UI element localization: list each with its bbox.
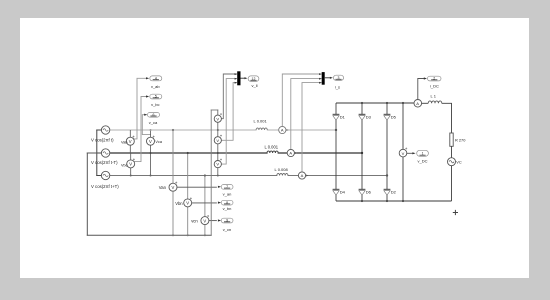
diode D3 bbox=[359, 114, 366, 120]
voltmeter Vca bbox=[147, 130, 155, 176]
node: Vdc branch bottom bbox=[402, 200, 404, 202]
pin polarity marks on voltmeters bbox=[133, 113, 408, 217]
node Vca crossing rail b bbox=[150, 152, 152, 154]
wire: V2 output riser to mux1 input 3 bbox=[221, 83, 236, 141]
wire: Vca output riser to outport 6 bbox=[142, 115, 150, 135]
wire: neutral return left drop bbox=[86, 153, 88, 235]
node: neutral joint Vbn bbox=[187, 234, 189, 236]
voltmeter Van bbox=[169, 183, 177, 191]
label D4 bbox=[340, 190, 346, 195]
wire: bridge leg 1 vertical bbox=[335, 103, 337, 201]
svg-text:D5: D5 bbox=[391, 115, 397, 120]
label VC bbox=[456, 159, 462, 164]
label Ldc value bbox=[431, 93, 437, 98]
svg-text:V: V bbox=[203, 218, 206, 223]
wire mux2 output bbox=[325, 77, 333, 79]
wire: Vcn output to outport 9 bbox=[209, 220, 217, 222]
label Vcn bbox=[191, 219, 198, 224]
inductor Ldc bbox=[422, 101, 442, 103]
svg-text:1: 1 bbox=[422, 151, 424, 155]
svg-text:v_bc: v_bc bbox=[151, 102, 159, 107]
wire: resistor to VC source bbox=[451, 146, 453, 157]
AC voltage source Va bbox=[101, 126, 109, 134]
node: top rail leg2 bbox=[361, 102, 363, 104]
node: Vdc branch top bbox=[402, 102, 404, 104]
node: voltmeter column crossing rail a bbox=[217, 129, 219, 131]
wire: ammeter A2 riser to mux2 input 2 bbox=[291, 79, 321, 150]
pin mux2 input arrows bbox=[319, 73, 321, 84]
wire: ammeter A3 riser to mux2 input 3 bbox=[302, 83, 321, 172]
label D2 bbox=[391, 190, 397, 195]
svg-text:Vab: Vab bbox=[121, 141, 127, 145]
outport 3 i_s bbox=[333, 75, 343, 80]
label Vbn bbox=[175, 201, 183, 206]
node: top rail leg3 bbox=[386, 102, 388, 104]
node: Vcn tap on phase c bbox=[204, 174, 206, 176]
svg-text:V cos(2πf t): V cos(2πf t) bbox=[91, 138, 114, 143]
svg-text:i_s: i_s bbox=[335, 85, 340, 90]
mux U1 voltage mux bbox=[237, 71, 240, 85]
svg-text:v_ll: v_ll bbox=[251, 83, 257, 88]
label plus terminal bbox=[453, 210, 458, 215]
resistor Rload bbox=[450, 133, 453, 146]
svg-text:L 0.001: L 0.001 bbox=[265, 144, 279, 149]
wire: V3 output riser to mux1 input 2 bbox=[221, 79, 236, 165]
wire: left source bus vertical bbox=[96, 130, 98, 176]
label Van bbox=[159, 185, 167, 190]
wire mux1 output bbox=[241, 77, 248, 79]
wire: Van measurement branch bbox=[172, 130, 174, 235]
svg-text:V: V bbox=[172, 185, 175, 190]
wire: Vdc output to outport 1 bbox=[407, 152, 416, 154]
outport 12 v_ll bbox=[248, 76, 259, 82]
label Lb value bbox=[265, 144, 279, 149]
svg-text:v_an: v_an bbox=[223, 192, 232, 197]
wire: phase a rail after ammeter A1 bbox=[286, 129, 336, 131]
ammeter A3 bbox=[298, 172, 308, 179]
svg-text:VC: VC bbox=[456, 159, 462, 164]
outport 6 v_ca bbox=[144, 112, 159, 117]
svg-text:V cos(2πf t+T): V cos(2πf t+T) bbox=[91, 184, 119, 189]
svg-text:v_ca: v_ca bbox=[149, 120, 158, 125]
svg-text:A: A bbox=[289, 151, 292, 156]
svg-text:L 1: L 1 bbox=[431, 93, 437, 98]
label La value bbox=[254, 118, 268, 123]
outport 5 v_bc bbox=[146, 94, 162, 99]
wire: phase b rail after ammeter A2 bbox=[294, 152, 362, 154]
wire: Vbn measurement branch bbox=[187, 153, 189, 235]
label port v_an bbox=[223, 192, 232, 197]
wire: phase c rail after ammeter A3 bbox=[306, 175, 387, 177]
svg-text:V: V bbox=[402, 151, 405, 156]
wire: voltmeter column vertical bbox=[217, 110, 219, 176]
svg-text:V: V bbox=[129, 139, 132, 144]
wire: bridge leg 3 vertical bbox=[386, 103, 388, 201]
svg-text:V: V bbox=[149, 139, 152, 144]
node: neutral joint Van bbox=[172, 234, 174, 236]
label Rload value bbox=[455, 137, 466, 142]
wire: phase a rail bbox=[110, 129, 279, 131]
wire: Adc riser to outport 2 bbox=[418, 77, 427, 99]
label D5 bbox=[391, 115, 397, 120]
svg-text:A: A bbox=[301, 173, 304, 178]
svg-text:v_DC: v_DC bbox=[417, 158, 427, 163]
wire: rail b to left drop bbox=[87, 152, 97, 154]
svg-text:A: A bbox=[281, 128, 284, 133]
label source Vb value bbox=[91, 160, 118, 165]
svg-text:V: V bbox=[216, 138, 219, 143]
label D6 bbox=[366, 190, 372, 195]
diode D2 bbox=[384, 189, 391, 195]
wire: source stub phase b bbox=[97, 152, 102, 154]
outport 2 i_DC bbox=[428, 76, 442, 81]
wire: bridge bottom rail bbox=[336, 200, 452, 202]
wire: Vab output riser to outport 4 bbox=[134, 78, 146, 139]
inductor Lb bbox=[267, 151, 278, 153]
svg-text:D4: D4 bbox=[340, 190, 346, 195]
outport 7 v_an bbox=[218, 185, 233, 190]
node: Van tap on phase a bbox=[172, 129, 174, 131]
wire: bridge leg 2 vertical bbox=[361, 103, 363, 201]
label port v_ab bbox=[151, 84, 160, 89]
svg-text:Vca: Vca bbox=[155, 140, 162, 144]
voltmeter Vdc branch wire bbox=[402, 103, 404, 201]
wire: bridge top rail bbox=[336, 102, 414, 104]
label D3 bbox=[366, 115, 372, 120]
label source Va value bbox=[91, 138, 114, 143]
diode D6 bbox=[359, 189, 366, 195]
wire: V1 output riser to mux1 input 1 bbox=[221, 74, 236, 119]
node: bottom rail leg2 bbox=[361, 200, 363, 202]
voltmeter V1 line-neutral bbox=[214, 115, 221, 122]
voltmeter Vdc bbox=[399, 149, 407, 157]
svg-text:Van: Van bbox=[159, 185, 167, 190]
svg-text:D2: D2 bbox=[391, 190, 397, 195]
node Vca tap phase a bbox=[150, 129, 152, 131]
svg-text:D1: D1 bbox=[340, 115, 346, 120]
outport 9 v_cn bbox=[218, 218, 233, 223]
node Vbc tap phase c bbox=[130, 175, 132, 177]
svg-text:A: A bbox=[416, 101, 419, 106]
svg-text:v_ab: v_ab bbox=[151, 84, 160, 89]
outport 8 v_bn bbox=[218, 200, 233, 205]
wire: Vbn output to outport 8 bbox=[192, 202, 217, 204]
svg-text:L 0.001: L 0.001 bbox=[254, 118, 268, 123]
label port v_bn bbox=[223, 206, 232, 211]
mux U2 current mux bbox=[322, 72, 325, 85]
label source Vc value bbox=[91, 184, 119, 189]
label port v_ll bbox=[251, 83, 257, 88]
svg-text:vcn: vcn bbox=[191, 219, 198, 224]
AC voltage source Vc bbox=[101, 171, 109, 179]
label port i_DC bbox=[430, 84, 439, 89]
source VC bbox=[448, 158, 456, 166]
diode D4 bbox=[333, 189, 340, 195]
svg-text:L 0.008: L 0.008 bbox=[275, 167, 289, 172]
wire: top jog to voltmeter column bbox=[211, 109, 218, 111]
outport 4 v_ab bbox=[146, 76, 162, 81]
label port i_s bbox=[335, 85, 340, 90]
label port v_bc bbox=[151, 102, 159, 107]
svg-text:Vbc: Vbc bbox=[121, 163, 128, 167]
inductor La bbox=[256, 128, 267, 130]
node: phase a to leg1 bbox=[335, 129, 337, 131]
wire: phase b rail bbox=[110, 152, 287, 154]
label Vab bbox=[121, 141, 127, 145]
node Vca tap phase c bbox=[150, 175, 152, 177]
pin mux1 input arrows bbox=[235, 73, 237, 84]
svg-text:V: V bbox=[216, 162, 219, 167]
label port v_cn bbox=[223, 227, 231, 232]
outport 1 v_DC bbox=[417, 150, 429, 156]
svg-text:R 270: R 270 bbox=[455, 137, 466, 142]
svg-text:V: V bbox=[129, 162, 132, 167]
wire: Vcn measurement branch bbox=[204, 176, 206, 236]
node: bottom rail leg3 bbox=[386, 200, 388, 202]
node: phase c to leg3 bbox=[386, 174, 388, 176]
inductor Lc bbox=[277, 174, 288, 176]
svg-text:v_bn: v_bn bbox=[223, 206, 232, 211]
ammeter A2 bbox=[287, 149, 297, 156]
voltmeter Vab bbox=[126, 130, 134, 153]
wire: source stub phase c bbox=[97, 175, 102, 177]
svg-text:i_DC: i_DC bbox=[430, 84, 439, 89]
svg-text:v_cn: v_cn bbox=[223, 227, 231, 232]
node: voltmeter column end rail c bbox=[217, 175, 219, 177]
voltmeter Vbn bbox=[184, 199, 192, 207]
svg-text:D3: D3 bbox=[366, 115, 372, 120]
node: neutral joint Vcn bbox=[204, 234, 206, 236]
node: Vbn tap on phase b bbox=[187, 152, 189, 154]
wire: dc top to load corner bbox=[442, 103, 452, 133]
wire: Van output to outport 7 bbox=[177, 186, 216, 188]
label Vca bbox=[155, 140, 162, 144]
voltmeter V3 line-neutral bbox=[214, 161, 221, 168]
voltmeter Vcn bbox=[201, 217, 209, 225]
wire: neutral bus bottom bbox=[87, 234, 211, 236]
svg-text:D6: D6 bbox=[366, 190, 372, 195]
label Lc value bbox=[275, 167, 289, 172]
diode D5 bbox=[384, 114, 391, 120]
wire: VC to bottom rail bbox=[451, 166, 453, 201]
wire: Vbc output riser to outport 5 bbox=[134, 97, 146, 162]
label port v_ca bbox=[149, 120, 158, 125]
wire: source stub phase a bbox=[97, 129, 102, 131]
ammeter A1 bbox=[279, 126, 289, 133]
svg-text:V cos(2πf t-T): V cos(2πf t-T) bbox=[91, 160, 118, 165]
voltmeter Vbc bbox=[127, 153, 135, 176]
svg-text:V: V bbox=[216, 116, 219, 121]
node: phase b to leg2 bbox=[361, 152, 363, 154]
AC voltage source Vb bbox=[101, 149, 109, 157]
label port v_DC bbox=[417, 158, 427, 163]
label Vbc bbox=[121, 163, 128, 167]
wire: phase c rail bbox=[110, 175, 299, 177]
voltmeter V2 line-neutral bbox=[214, 137, 221, 144]
wire: neutral riser vertical x211 bbox=[210, 110, 212, 235]
diode D1 bbox=[333, 114, 340, 120]
node: voltmeter column crossing rail b bbox=[217, 152, 219, 154]
wire: ammeter A1 riser to mux2 input 1 bbox=[282, 74, 321, 126]
ammeter Adc bbox=[414, 100, 422, 108]
svg-text:Vbn: Vbn bbox=[175, 201, 183, 206]
label D1 bbox=[340, 115, 346, 120]
svg-text:V: V bbox=[186, 201, 189, 206]
